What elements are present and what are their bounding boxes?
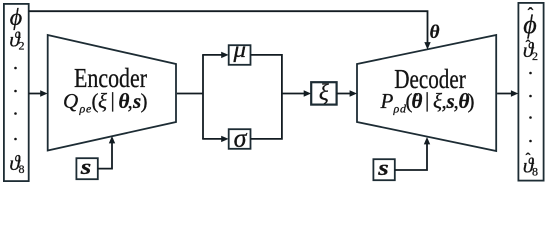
svg-text:,: ,	[128, 89, 133, 113]
svg-text:): )	[141, 89, 148, 113]
svg-text:ξ: ξ	[98, 89, 107, 113]
svg-text:|: |	[425, 88, 429, 112]
svg-text:P: P	[380, 89, 394, 113]
svg-text:8: 8	[532, 165, 538, 179]
svg-text:2: 2	[532, 49, 538, 63]
svg-text:8: 8	[19, 162, 25, 176]
svg-text:Q: Q	[63, 89, 78, 113]
svg-text:s: s	[80, 154, 92, 179]
svg-text:μ: μ	[232, 37, 246, 62]
svg-text:θ: θ	[412, 89, 423, 113]
svg-text:σ: σ	[234, 124, 248, 153]
svg-text:|: |	[111, 88, 115, 112]
svg-text:ϕ: ϕ	[523, 10, 536, 39]
svg-text:ξ: ξ	[319, 80, 329, 105]
svg-text:ρ: ρ	[79, 102, 86, 116]
svg-text:s: s	[377, 155, 389, 180]
svg-text:θ: θ	[430, 22, 440, 43]
svg-text:2: 2	[19, 39, 25, 53]
svg-text:ρ: ρ	[393, 102, 400, 116]
svg-text:): )	[468, 89, 475, 113]
